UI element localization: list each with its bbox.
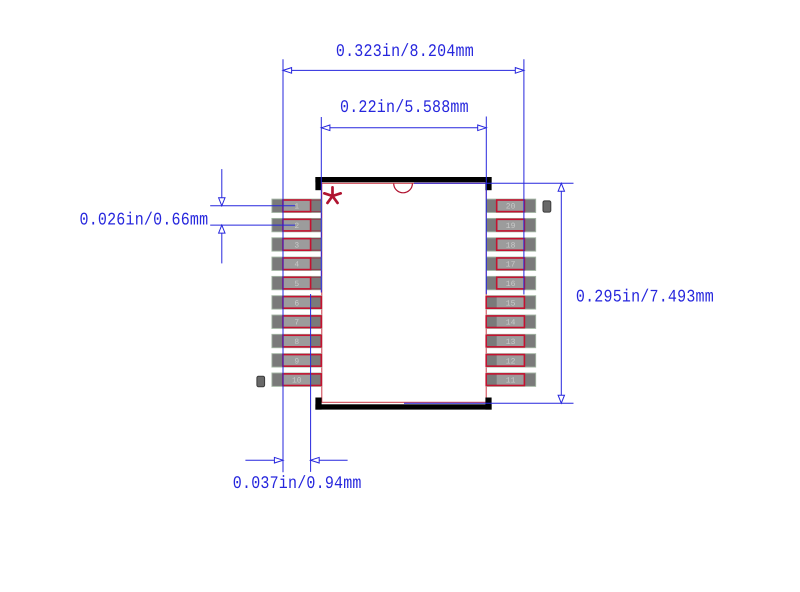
svg-text:14: 14 — [506, 319, 516, 328]
svg-text:3: 3 — [294, 241, 299, 250]
pad 15 (pin 15) — [486, 297, 524, 309]
pin 3 lead — [272, 238, 322, 251]
pad 11 (pin 11) — [486, 374, 524, 386]
pin 1 lead — [272, 199, 322, 212]
pin 8 lead — [272, 334, 322, 347]
dim text 0.037in/0.94mm — [233, 474, 362, 494]
pin 10 lead — [272, 373, 322, 386]
svg-text:7: 7 — [294, 319, 299, 328]
pad 1 muted lead frame — [311, 200, 322, 212]
pad 9 (pin 9) — [283, 355, 321, 367]
svg-text:10: 10 — [292, 377, 302, 386]
svg-text:4: 4 — [294, 261, 299, 270]
bottom package bar — [315, 398, 491, 410]
dim 0.295in extension line top — [414, 182, 574, 184]
dim 0.323in extension line left — [282, 59, 284, 472]
pin 11 lead — [486, 373, 536, 386]
dim 0.026in up arrow — [219, 225, 225, 233]
dim text 0.026in/0.66mm — [80, 210, 209, 230]
pin 7 lead — [272, 315, 322, 328]
pin 17 lead — [486, 257, 536, 270]
pad 16 (pin 16) — [497, 277, 525, 289]
pin 9 lead — [272, 354, 322, 367]
pad 14 (pin 14) — [486, 316, 524, 328]
dim 0.323in extension line right — [523, 59, 525, 294]
pin 13 lead — [486, 334, 536, 347]
svg-text:6: 6 — [294, 299, 299, 308]
pin 15 lead — [486, 296, 536, 309]
pad 3 (pin 3) — [283, 239, 311, 251]
pad 19 (pin 19) — [497, 219, 525, 231]
dim 0.026in lower leader line — [221, 233, 223, 263]
svg-text:16: 16 — [506, 280, 516, 289]
dim 0.037in extension line left — [282, 386, 284, 472]
pad 17 (pin 17) — [497, 258, 525, 270]
pad 3 muted lead frame — [311, 239, 322, 251]
dim 0.026in upper leader line — [221, 169, 223, 198]
dim 0.295in dimension line — [560, 191, 562, 397]
svg-text:11: 11 — [506, 377, 516, 386]
svg-text:15: 15 — [506, 299, 516, 308]
pad 18 (pin 18) — [497, 239, 525, 251]
pin 6 lead — [272, 296, 322, 309]
dim 0.026in pointer line pin2 — [210, 224, 295, 226]
pad 12 (pin 12) — [486, 355, 524, 367]
pin 4 lead — [272, 257, 322, 270]
svg-text:18: 18 — [506, 241, 516, 250]
dim 0.026in down arrow — [219, 198, 225, 206]
svg-text:1: 1 — [294, 203, 299, 212]
pin-1 index arc notch — [394, 184, 413, 193]
svg-text:9: 9 — [294, 357, 299, 366]
pad 13 (pin 13) — [486, 335, 524, 347]
svg-text:8: 8 — [294, 338, 299, 347]
pad 8 (pin 8) — [283, 335, 321, 347]
dim text 0.22in/5.588mm — [340, 98, 469, 118]
svg-text:20: 20 — [506, 203, 516, 212]
dim 0.22in extension line right — [485, 117, 487, 295]
pad 2 muted lead frame — [311, 219, 322, 231]
dim 0.22in left arrow — [321, 125, 330, 131]
svg-text:0.026in/0.66mm: 0.026in/0.66mm — [80, 210, 209, 230]
polarity square near pin 20 — [543, 201, 551, 212]
top package bar — [315, 177, 491, 190]
dim 0.323in left arrow — [283, 68, 292, 74]
dim 0.323in right arrow — [515, 68, 524, 74]
dim 0.22in dimension line — [321, 127, 486, 129]
svg-text:0.295in/7.493mm: 0.295in/7.493mm — [576, 287, 714, 307]
pad 6 (pin 6) — [283, 297, 321, 309]
dim 0.037in right arrow — [311, 457, 320, 463]
dim 0.295in top arrow — [558, 183, 564, 191]
dim text 0.295in/7.493mm — [576, 287, 714, 307]
pin 12 lead — [486, 354, 536, 367]
polarity square near pin 10 — [257, 376, 265, 386]
pin 19 lead — [486, 218, 536, 231]
pad 4 muted lead frame — [311, 258, 322, 270]
pin 2 lead — [272, 218, 322, 231]
svg-text:19: 19 — [506, 222, 516, 231]
pad 10 (pin 10) — [283, 374, 321, 386]
dim 0.295in extension line bottom — [404, 402, 574, 404]
dim 0.295in bottom arrow — [558, 395, 564, 403]
pad 1 (pin 1) — [283, 200, 311, 212]
dim 0.037in right pointer line — [311, 459, 348, 461]
pad 7 (pin 7) — [283, 316, 321, 328]
pin 16 lead — [486, 276, 536, 289]
pad 20 (pin 20) — [497, 200, 525, 212]
dim text 0.323in/8.204mm — [336, 42, 474, 62]
svg-text:17: 17 — [506, 261, 516, 270]
pin 20 lead — [486, 199, 536, 212]
pin 5 lead — [272, 276, 322, 289]
svg-text:0.22in/5.588mm: 0.22in/5.588mm — [340, 98, 469, 118]
svg-text:13: 13 — [506, 338, 516, 347]
pin-1 asterisk marker — [324, 187, 340, 203]
pad 2 (pin 2) — [283, 219, 311, 231]
dim 0.037in extension line right — [310, 294, 312, 472]
pad 5 (pin 5) — [283, 277, 311, 289]
svg-text:2: 2 — [294, 222, 299, 231]
package body outline — [322, 183, 486, 402]
dim 0.037in left pointer line — [245, 459, 283, 461]
dim 0.22in extension line left — [320, 117, 322, 293]
dim 0.22in right arrow — [478, 125, 487, 131]
pad 4 (pin 4) — [283, 258, 311, 270]
svg-text:12: 12 — [506, 357, 516, 366]
svg-text:0.037in/0.94mm: 0.037in/0.94mm — [233, 474, 362, 494]
svg-text:0.323in/8.204mm: 0.323in/8.204mm — [336, 42, 474, 62]
pad 5 muted lead frame — [311, 277, 322, 289]
dim 0.323in dimension line — [283, 69, 524, 71]
pin 18 lead — [486, 238, 536, 251]
dim 0.026in pointer line pin1 — [210, 205, 295, 207]
dim 0.037in left arrow — [274, 457, 283, 463]
pin 14 lead — [486, 315, 536, 328]
svg-text:5: 5 — [294, 280, 299, 289]
